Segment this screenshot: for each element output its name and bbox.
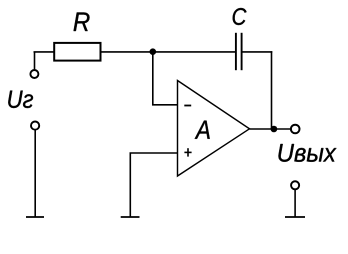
wire lower output to ground: [294, 190, 296, 217]
resistor R: [54, 43, 100, 61]
terminal input lower circle: [31, 122, 39, 130]
ground right bar: [285, 216, 305, 218]
label R: [74, 13, 90, 32]
wire junction down to inverting input: [152, 52, 154, 105]
label A (op-amp gain): [195, 121, 210, 139]
pin minus inverting: [184, 105, 191, 107]
capacitor C left plate: [235, 33, 237, 70]
node junction at inverting branch: [150, 48, 157, 55]
terminal output lower circle: [291, 181, 299, 189]
wire input horizontal: [34, 51, 55, 53]
label Uвых (output voltage): [279, 144, 337, 162]
capacitor C right plate: [241, 33, 243, 70]
wire lower input to ground: [34, 130, 36, 217]
wire non-inverting input horizontal: [130, 152, 178, 154]
wire feedback vertical down: [271, 51, 273, 129]
terminal input upper circle: [30, 70, 38, 78]
wire output from apex to terminal: [250, 128, 291, 130]
pin plus non-inverting: [184, 151, 191, 153]
op-amp A triangle: [178, 81, 250, 177]
wire resistor to capacitor: [100, 51, 235, 53]
wire input vertical drop to terminal: [34, 52, 36, 70]
terminal output circle: [291, 125, 300, 134]
wire capacitor to right corner: [242, 51, 272, 53]
node output junction: [271, 126, 278, 133]
ground left bar: [26, 216, 44, 218]
label Uг (source voltage): [8, 91, 33, 108]
label C: [233, 8, 247, 25]
ground middle bar: [121, 216, 140, 218]
wire inverting input horizontal: [152, 104, 178, 106]
wire non-inverting down to ground: [129, 153, 131, 217]
